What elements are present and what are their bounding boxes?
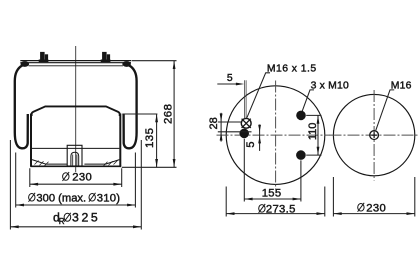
- dish hatch right: [104, 161, 118, 166]
- dim line d300: [16, 204, 136, 206]
- dim dia 273.5: [226, 187, 325, 217]
- extension line piston top (135): [122, 113, 157, 115]
- M10 hole upper right: [296, 111, 306, 121]
- dim 28: [208, 113, 251, 142]
- dim 5 middle: [245, 125, 261, 151]
- M10 hole lower right: [296, 150, 306, 160]
- dim line d230 left view: [30, 183, 122, 185]
- label dia300 max310: [29, 193, 121, 205]
- label dR 325: [53, 211, 100, 227]
- svg-text:110: 110: [307, 123, 319, 141]
- bead left: [21, 61, 30, 67]
- boss threaded hole: [71, 152, 79, 166]
- extension line top (268): [132, 60, 177, 62]
- svg-text:135: 135: [144, 128, 156, 149]
- stud right: [101, 52, 111, 62]
- left view centerline: [75, 46, 77, 172]
- right centerline vertical: [373, 90, 375, 181]
- middle centerline vertical: [275, 81, 277, 190]
- dim line 135: [156, 114, 158, 167]
- piston top plate: [32, 106, 120, 116]
- leader M16: [376, 90, 394, 130]
- ext lines d230 left view: [30, 168, 122, 187]
- svg-text:M16 x 1.5: M16 x 1.5: [267, 64, 317, 75]
- leader M16x1.5: [247, 73, 270, 118]
- svg-text:155: 155: [262, 188, 282, 200]
- extension line bottom: [122, 166, 177, 168]
- dim line 268: [173, 61, 175, 168]
- svg-text:268: 268: [163, 104, 175, 125]
- svg-text:230: 230: [366, 203, 386, 215]
- bottom dish left: [32, 160, 67, 165]
- dim 155: [244, 139, 301, 202]
- svg-text:28: 28: [208, 117, 220, 129]
- dim dia 230 right: [333, 177, 414, 217]
- label dia230 left: [63, 172, 93, 184]
- svg-text:300 (max.: 300 (max.: [36, 193, 86, 205]
- piston wall left: [30, 114, 32, 167]
- middle centerline horizontal: [217, 134, 331, 136]
- piston bottom edge: [30, 165, 121, 167]
- M10 blind hole left: [239, 129, 249, 139]
- ext lines dR325: [10, 140, 141, 230]
- M16x1.5 port hole: [241, 118, 251, 128]
- ext lines d300: [16, 153, 136, 208]
- dim 110: [306, 115, 321, 155]
- piston wall right: [119, 114, 121, 167]
- middle circle (top view): [226, 86, 325, 185]
- bottom dish right: [84, 160, 119, 165]
- top bead plate: [20, 60, 131, 62]
- svg-text:325: 325: [72, 211, 100, 225]
- svg-text:5: 5: [245, 142, 257, 148]
- bellows outline right: [124, 65, 137, 148]
- center boss: [67, 145, 82, 166]
- piston inner seam: [32, 147, 119, 149]
- bead right: [122, 61, 131, 67]
- right circle (bottom view): [333, 94, 414, 175]
- leader 3xM10: [302, 90, 314, 111]
- svg-text:310): 310): [97, 193, 120, 205]
- svg-text:273.5: 273.5: [266, 204, 296, 216]
- stud left: [39, 52, 49, 62]
- dish hatch left: [35, 161, 49, 166]
- svg-text:3 x M10: 3 x M10: [311, 81, 349, 92]
- svg-text:5: 5: [227, 73, 233, 84]
- dim line dR325: [10, 226, 141, 228]
- right centerline horizontal: [330, 134, 420, 136]
- bellows outline left: [15, 65, 28, 148]
- M16 center hole: [370, 131, 379, 140]
- dim 5 top: [217, 73, 246, 119]
- svg-text:230: 230: [72, 172, 92, 184]
